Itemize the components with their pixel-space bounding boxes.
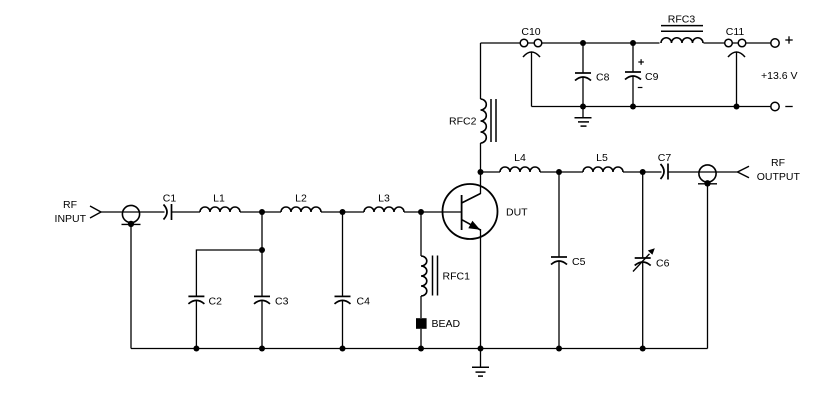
node junction C2/C3 branch — [259, 247, 265, 253]
wire RFC1 to bead — [420, 296, 422, 318]
capacitor C3 — [254, 296, 270, 304]
svg-text:C2: C2 — [209, 296, 223, 308]
transistor Q1 DUT — [443, 184, 498, 239]
wire L3 to transistor base — [404, 211, 462, 213]
inductor L2 — [281, 207, 321, 212]
wire C11 ground drop — [736, 52, 738, 107]
node junction C6 ground — [640, 346, 646, 352]
capacitor C5 — [551, 257, 567, 265]
wire output jack ground drop — [707, 184, 709, 349]
inductor L1 — [200, 207, 240, 212]
node junction C4 ground — [340, 346, 346, 352]
wire C10 ground drop — [531, 52, 533, 107]
inductor RFC3 — [660, 26, 704, 45]
capacitor C8 — [575, 73, 591, 81]
wire power ground rail — [532, 106, 771, 108]
capacitor C9 — [625, 72, 641, 80]
svg-text:+13.6 V: +13.6 V — [761, 70, 798, 82]
svg-text:L5: L5 — [596, 152, 608, 164]
svg-text:C9: C9 — [645, 71, 659, 83]
connector J2 (output jack) — [698, 165, 717, 187]
node junction L2/L3/C4 — [340, 209, 346, 215]
node junction C2 ground — [193, 346, 199, 352]
node junction C5 ground — [556, 346, 562, 352]
capacitor C9 polarity plus — [638, 59, 644, 65]
output signal arrow — [738, 166, 750, 178]
wire emitter to ground rail — [480, 229, 482, 349]
capacitor C4 — [335, 296, 351, 304]
svg-text:C1: C1 — [163, 193, 177, 205]
wire bottom ground rail — [131, 348, 708, 350]
feedthrough capacitor C11 — [725, 39, 746, 57]
svg-text:RFC1: RFC1 — [443, 271, 471, 283]
svg-text:C7: C7 — [658, 152, 672, 164]
wire C3 branch — [261, 212, 263, 296]
ground symbol main — [472, 349, 489, 377]
wire C6 branch — [642, 172, 644, 258]
capacitor C2 — [188, 296, 204, 304]
wire C7 to output arrow — [668, 171, 738, 173]
node junction C9 top — [630, 40, 636, 46]
node junction collector/L4 — [478, 169, 484, 175]
wire RFC1 branch top — [420, 212, 422, 256]
svg-text:C5: C5 — [572, 256, 586, 268]
svg-text:C3: C3 — [275, 296, 289, 308]
node junction L3/RFC1 — [418, 209, 424, 215]
node junction C3 ground — [259, 346, 265, 352]
wire L5 to C7 — [623, 171, 662, 173]
node junction C8 top — [580, 40, 586, 46]
capacitor C7 — [661, 164, 669, 180]
inductor L4 — [500, 167, 540, 172]
wire L2 to L3 — [321, 211, 364, 213]
terminal plus — [771, 39, 779, 47]
connector J1 (input jack) — [122, 205, 141, 227]
RF OUTPUT label — [757, 157, 801, 183]
wire collector/RFC2 vertical top — [480, 43, 482, 99]
node junction C9 bottom — [630, 104, 636, 110]
capacitor C1 — [164, 204, 172, 220]
svg-text:L1: L1 — [213, 193, 225, 205]
wire L4 to L5 — [540, 171, 583, 173]
wire L1 to L2 — [240, 211, 281, 213]
node junction L5/C6 — [640, 169, 646, 175]
svg-text:RFC3: RFC3 — [668, 14, 696, 26]
wire C4 branch — [342, 212, 344, 296]
node junction bead ground — [418, 346, 424, 352]
ground symbol under C8 — [575, 107, 592, 127]
svg-text:C4: C4 — [357, 296, 371, 308]
wire C8 to power ground rail — [582, 77, 584, 107]
inductor RFC1 — [421, 256, 438, 297]
node junction L4/L5/C5 — [556, 169, 562, 175]
wire input jack ground drop — [130, 224, 132, 349]
svg-text:C6: C6 — [656, 258, 670, 270]
wire C9 branch — [632, 43, 634, 72]
wire C5 to ground rail — [558, 261, 560, 349]
svg-text:C10: C10 — [521, 26, 540, 38]
wire C3 to ground rail — [261, 301, 263, 349]
inductor L3 — [364, 207, 404, 212]
wire C4 to ground rail — [342, 301, 344, 349]
node junction emitter ground — [478, 346, 484, 352]
svg-text:C8: C8 — [596, 72, 610, 84]
svg-text:OUTPUT: OUTPUT — [757, 171, 801, 183]
minus sign — [785, 106, 792, 108]
plus sign — [785, 36, 792, 43]
wire output rail left — [481, 171, 501, 173]
wire C6 to ground rail — [642, 262, 644, 349]
wire C5 branch — [558, 172, 560, 257]
svg-text:RFC2: RFC2 — [449, 116, 477, 128]
feedthrough capacitor C10 — [520, 39, 542, 57]
svg-text:DUT: DUT — [506, 207, 528, 219]
svg-text:L3: L3 — [378, 193, 390, 205]
inductor L5 — [583, 167, 623, 172]
wire C9 to power ground rail — [632, 76, 634, 107]
wire RFC2 to collector node — [480, 143, 482, 194]
node junction L1/L2/C3 — [259, 209, 265, 215]
RF INPUT label — [55, 199, 87, 225]
terminal minus — [771, 102, 779, 110]
wire bead to ground rail — [420, 329, 422, 349]
svg-text:C11: C11 — [726, 26, 745, 38]
wire C2 to ground rail — [195, 301, 197, 349]
wire top supply rail — [481, 42, 771, 44]
variable capacitor C6 — [633, 248, 655, 271]
svg-text:L4: L4 — [514, 152, 526, 164]
wire C2 branch jog — [196, 250, 262, 296]
wire C1 to L1 — [172, 211, 201, 213]
node junction C11 ground — [734, 104, 740, 110]
inductor RFC2 — [481, 99, 497, 143]
svg-text:RF: RF — [771, 157, 785, 169]
wire C8 branch — [582, 43, 584, 73]
wire input rail — [101, 211, 165, 213]
ferrite bead — [416, 318, 427, 329]
node junction C8 bottom — [580, 104, 586, 110]
svg-text:L2: L2 — [295, 193, 307, 205]
svg-text:BEAD: BEAD — [432, 318, 461, 330]
svg-text:INPUT: INPUT — [55, 213, 87, 225]
svg-text:RF: RF — [63, 199, 77, 211]
input signal arrow — [90, 206, 101, 218]
capacitor C9 polarity minus — [638, 87, 643, 89]
